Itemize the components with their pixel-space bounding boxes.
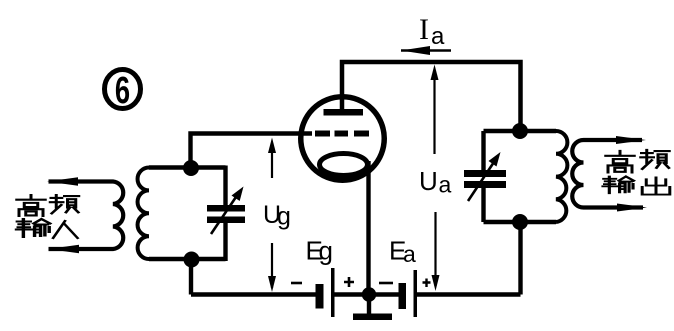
variable capacitor C2: [464, 131, 506, 222]
right tank bottom rail wire: [484, 220, 557, 224]
svg-text:a: a: [439, 172, 452, 198]
svg-text:g: g: [277, 203, 291, 231]
svg-text:a: a: [431, 23, 445, 50]
node dot tank bottom: [184, 252, 200, 268]
label 输出 (output line 2): [603, 177, 670, 195]
Ug dimension arrow up: [268, 138, 276, 179]
tube grid dashes: [315, 131, 369, 137]
minus sign (Ea): [379, 282, 393, 285]
wire cathode lead: [366, 161, 370, 295]
Ia current arrow: [401, 46, 451, 55]
wire right tank to bottom rail: [518, 222, 522, 295]
variable capacitor C1: [207, 166, 245, 262]
minus sign (Eg): [291, 282, 302, 285]
vacuum tube V1 envelope: [301, 97, 385, 181]
output arrow top: [616, 136, 646, 144]
svg-text:U: U: [419, 166, 438, 196]
node dot right tank top: [512, 123, 528, 139]
left tank bottom rail wire: [149, 257, 226, 261]
output coupling coil L4: [572, 140, 643, 208]
wire grid lead: [191, 134, 313, 170]
label 高频 (input line 1): [17, 195, 79, 216]
Ug dimension arrow down: [268, 243, 276, 292]
tube cathode: [320, 154, 368, 176]
tube anode plate: [324, 109, 364, 116]
wire tank bottom to ground rail: [189, 260, 193, 295]
node dot right tank bottom: [512, 214, 528, 230]
wire bottom rail middle segment: [335, 292, 400, 296]
plus sign (Eg): [344, 277, 354, 287]
Ua dimension arrow up: [431, 65, 439, 155]
wire anode to plate supply (top): [342, 62, 521, 131]
right tank top rail wire: [484, 129, 557, 133]
label 高频 (output line 1): [606, 150, 670, 172]
ground: [353, 295, 392, 321]
svg-text:a: a: [403, 241, 416, 267]
input arrow top: [47, 177, 78, 185]
node dot grid-tank top: [183, 160, 199, 176]
right tank coil L3: [556, 131, 567, 222]
battery Eg: [316, 268, 335, 317]
svg-text:6: 6: [115, 70, 130, 112]
node dot cathode junction: [362, 287, 376, 301]
wire bottom rail right segment: [417, 292, 521, 296]
left tank top rail wire: [149, 165, 226, 169]
wire bottom rail left segment: [191, 292, 316, 296]
svg-text:I: I: [419, 13, 429, 46]
input coupling coil L1: [49, 182, 124, 250]
label 输入 (input line 2): [17, 219, 78, 238]
battery Ea: [399, 270, 418, 317]
input arrow bottom: [48, 245, 79, 253]
figure number 6: [105, 70, 141, 113]
svg-text:g: g: [319, 236, 333, 266]
left tank coil L2: [138, 168, 149, 259]
output arrow bottom: [617, 204, 647, 212]
plus sign (Ea): [423, 279, 431, 288]
Ua dimension arrow down: [432, 212, 440, 291]
